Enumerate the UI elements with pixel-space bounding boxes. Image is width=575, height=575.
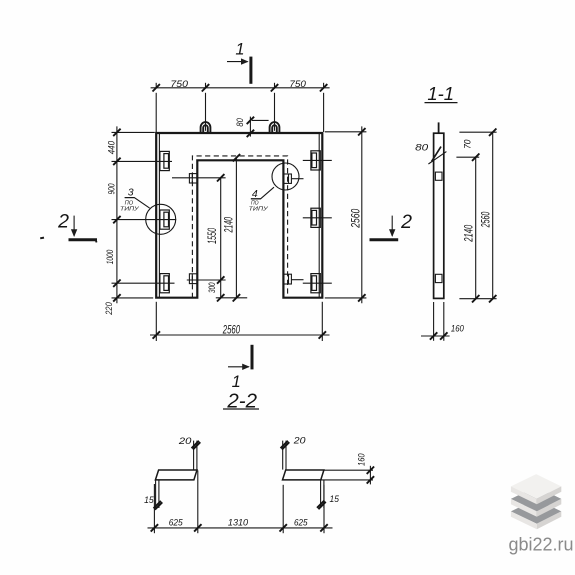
section 1-1 loop pin [438, 122, 440, 133]
svg-text:2-2: 2-2 [226, 390, 257, 413]
label 3 underline [125, 197, 135, 199]
dim 2140 line [216, 158, 247, 298]
ticks main view [113, 84, 365, 339]
svg-text:750: 750 [289, 79, 306, 90]
svg-text:4: 4 [252, 188, 258, 200]
section 2-2 dim 15 right [321, 480, 324, 508]
embed axis right middle [303, 217, 332, 219]
svg-text:15: 15 [144, 495, 154, 506]
section 2-2 ticks [151, 441, 374, 532]
svg-text:220: 220 [104, 302, 115, 316]
embed plate jamb right bottom [284, 274, 292, 284]
embed plate jamb left bottom [189, 274, 197, 284]
dim left chain line [112, 126, 177, 303]
scan speck mid [95, 239, 96, 242]
section marker 1 bottom [228, 345, 252, 370]
svg-text:1550: 1550 [207, 228, 219, 244]
svg-text:3: 3 [128, 187, 134, 199]
dim right 2560 line [325, 126, 367, 303]
svg-text:80: 80 [415, 142, 429, 153]
right face chamfer line [318, 134, 320, 297]
section marker 2 left [69, 216, 98, 240]
svg-text:160: 160 [451, 324, 465, 335]
leader detail 3 [125, 198, 150, 209]
lifting loop right [270, 122, 280, 132]
section 2-2 left jamb [155, 470, 197, 480]
embed plate right top [311, 151, 320, 170]
section 2-2 dim 15 left [156, 480, 159, 508]
embed axis jamb right top [291, 178, 303, 180]
lifting loop left [201, 122, 211, 133]
section 2-2 dim 160 [321, 466, 373, 485]
embed plate right bottom [311, 274, 320, 293]
scan speck left [40, 237, 44, 240]
svg-text:2560: 2560 [222, 325, 240, 337]
svg-text:ТИПУ: ТИПУ [120, 206, 140, 212]
svg-text:625: 625 [294, 518, 308, 529]
embed axis right bottom [303, 282, 332, 284]
embed plate right middle [311, 208, 320, 227]
embed plate jamb left top [189, 174, 197, 183]
svg-text:2: 2 [57, 211, 69, 233]
logo slab middle [511, 487, 561, 517]
detail circle 4 [272, 163, 299, 190]
logo slab top [511, 474, 561, 504]
section 1-1 ticks [430, 129, 497, 340]
detail circle 3 [146, 204, 176, 234]
section 2-2 right jamb [283, 470, 324, 480]
svg-text:440: 440 [106, 140, 117, 154]
svg-text:gbi22.ru: gbi22.ru [509, 535, 574, 555]
section 1-1 bar [434, 133, 444, 298]
embed plate left bottom [160, 274, 169, 293]
dashed far-side opening line [192, 156, 287, 298]
svg-text:750: 750 [170, 79, 188, 90]
dim bottom 2560 line [150, 302, 330, 341]
section marker 2 right [370, 216, 399, 240]
section 1-1 dim lines 2140/2560 [456, 132, 496, 299]
embed axis jamb right bottom [291, 279, 303, 281]
label 4 underline [251, 198, 261, 200]
svg-text:160: 160 [356, 453, 367, 466]
svg-text:1000: 1000 [105, 249, 116, 264]
section marker 1 top [227, 57, 251, 84]
embed plate left middle (detail 3) [160, 210, 169, 229]
dim 1550/300 line [172, 178, 226, 298]
svg-text:900: 900 [107, 183, 118, 194]
svg-text:ТИПУ: ТИПУ [249, 207, 270, 213]
svg-text:70: 70 [462, 139, 473, 149]
section 2-2 bottom chain 625/1310/625 [148, 470, 333, 533]
panel outline [156, 133, 322, 298]
title underline 1-1 [425, 102, 458, 104]
embed plate jamb right top (detail 4) [284, 174, 292, 183]
title underline 2-2 [223, 408, 259, 410]
section 1-1 dim 160 [421, 302, 450, 341]
svg-text:1: 1 [232, 373, 241, 391]
section 1-1 chamfer diagonal [428, 152, 446, 164]
section 2-2 dim 20 left [194, 441, 197, 470]
svg-text:1-1: 1-1 [427, 83, 454, 104]
svg-text:80: 80 [235, 118, 246, 127]
section 1-1 embed bottom [435, 274, 442, 282]
embed plate left top [160, 151, 169, 170]
section 1-1 embed top [435, 172, 442, 180]
svg-text:20: 20 [178, 436, 193, 447]
leader detail 4 [251, 187, 274, 199]
svg-text:1310: 1310 [228, 518, 249, 529]
dim top line 750/750 [151, 83, 330, 132]
svg-text:300: 300 [207, 282, 218, 293]
section 2-2 dim 20 right [283, 441, 286, 470]
svg-text:20: 20 [293, 435, 307, 446]
logo slab bottom [511, 499, 561, 529]
svg-text:2140: 2140 [224, 217, 236, 233]
svg-text:15: 15 [330, 494, 340, 505]
svg-text:2140: 2140 [464, 224, 476, 242]
svg-text:2560: 2560 [351, 208, 363, 228]
svg-text:2: 2 [400, 211, 412, 233]
svg-text:1: 1 [235, 40, 244, 58]
svg-text:2560: 2560 [481, 211, 493, 228]
embed axis right top [303, 159, 332, 161]
svg-text:625: 625 [169, 518, 184, 529]
left face chamfer line [158, 134, 160, 297]
dim 80 loop height [250, 117, 268, 137]
